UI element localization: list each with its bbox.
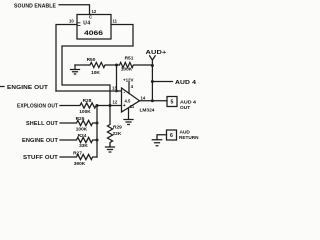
connector 5 [167, 97, 196, 111]
pin 14 label [141, 96, 146, 101]
node D junction [151, 64, 154, 67]
pin 13 label [112, 86, 117, 91]
pin 12 label [92, 9, 97, 14]
svg-text:AUD 4: AUD 4 [180, 99, 196, 105]
svg-text:R25: R25 [76, 116, 85, 122]
svg-text:100K: 100K [121, 67, 133, 73]
wire stub at image edge [0, 86, 4, 88]
svg-text:AUD: AUD [180, 130, 191, 136]
resistor R25 [60, 116, 97, 133]
svg-text:R28: R28 [83, 98, 92, 104]
wire sound enable to U4 pin 12 [59, 5, 90, 15]
svg-text:4: 4 [131, 84, 134, 89]
svg-text:U4: U4 [83, 21, 90, 27]
svg-text:ENGINE OUT: ENGINE OUT [22, 138, 59, 144]
svg-text:R24: R24 [78, 133, 87, 139]
wire U4 pin 11 to node B [62, 25, 133, 106]
svg-text:4.5: 4.5 [125, 99, 131, 104]
svg-text:390K: 390K [74, 161, 86, 167]
wire node D down to output node [151, 65, 153, 101]
resistor R28 [60, 98, 97, 115]
node STUFF OUT label [23, 155, 59, 161]
node SOUND ENABLE label [14, 3, 56, 9]
node bus junction pin 12 [109, 104, 112, 107]
svg-text:12: 12 [92, 9, 97, 14]
svg-text:C: C [89, 15, 92, 20]
wire U4 pin 10 to node A [56, 25, 77, 92]
svg-text:+: + [123, 103, 126, 109]
ground G3 [152, 140, 161, 146]
resistor R24 [60, 133, 97, 149]
svg-text:R29: R29 [113, 125, 122, 131]
resistor R51 [117, 56, 153, 73]
pin 11 label [113, 19, 118, 24]
svg-text:4066: 4066 [84, 30, 104, 37]
node bus junction R28 [96, 104, 99, 107]
resistor R29 [107, 106, 122, 147]
wire op-amp output to connector 5 [140, 100, 168, 102]
wire +12V to op-amp pin 4 [128, 83, 130, 94]
ground G4 [106, 146, 115, 152]
svg-text:SOUND ENABLE: SOUND ENABLE [14, 3, 56, 9]
ground G1 [71, 65, 80, 74]
svg-text:5: 5 [171, 100, 174, 106]
wire connector 6 to ground [157, 135, 167, 140]
wire op-amp ground stub [128, 109, 130, 119]
pin 11 label [130, 104, 135, 109]
svg-text:6: 6 [170, 133, 173, 139]
svg-text:10: 10 [69, 19, 74, 24]
wire summing bus [97, 106, 121, 158]
svg-text:33K: 33K [79, 143, 88, 149]
svg-text:ENGINE OUT: ENGINE OUT [7, 85, 49, 91]
svg-text:22K: 22K [113, 131, 122, 137]
svg-text:R51: R51 [125, 56, 134, 62]
node C junction [115, 64, 118, 67]
svg-text:11: 11 [130, 104, 135, 109]
svg-text:R27: R27 [73, 150, 82, 156]
node ENGINE OUT label [22, 138, 59, 144]
node EXPLOSION OUT label [17, 103, 59, 109]
svg-text:EXPLOSION OUT: EXPLOSION OUT [17, 103, 59, 109]
svg-text:RETURN: RETURN [179, 135, 199, 141]
node pin13 junction [115, 90, 118, 93]
svg-text:LM324: LM324 [140, 108, 155, 114]
net +12V [123, 78, 134, 84]
wire node A to op-amp pin 13 [56, 90, 118, 92]
svg-text:10K: 10K [91, 70, 100, 76]
svg-text:14: 14 [141, 96, 146, 101]
node E junction [151, 80, 154, 83]
op-amp LM324 [122, 88, 155, 114]
node * ENGINE OUT label [7, 85, 49, 91]
svg-text:100K: 100K [79, 109, 91, 115]
resistor R27 [60, 150, 97, 167]
svg-text:STUFF OUT: STUFF OUT [23, 155, 59, 161]
pin 10 label [69, 19, 74, 24]
resistor R50 [75, 57, 117, 76]
ground G2 [124, 120, 133, 125]
svg-text:11: 11 [113, 19, 118, 24]
svg-text:AUD+: AUD+ [146, 50, 167, 56]
pin 12 label [113, 100, 118, 105]
svg-text:100K: 100K [76, 126, 88, 132]
svg-text:OUT: OUT [180, 105, 190, 111]
node F junction [151, 99, 154, 102]
svg-text:12: 12 [113, 100, 118, 105]
node SHELL OUT label [26, 121, 59, 127]
pin 4 label [131, 84, 134, 89]
net AUD 4 arrow [152, 80, 196, 86]
svg-text:13: 13 [112, 86, 117, 91]
wire node C to op-amp pin 13 [117, 65, 122, 91]
svg-text:R50: R50 [87, 57, 96, 63]
svg-text:AUD 4: AUD 4 [175, 80, 196, 86]
node bus junction R25 [96, 122, 99, 125]
net AUD+ arrow [146, 50, 167, 65]
connector 6 [167, 130, 200, 142]
IC U4 4066 analog switch [77, 15, 111, 40]
svg-text:SHELL OUT: SHELL OUT [26, 121, 59, 127]
node bus junction R24 [96, 139, 99, 142]
